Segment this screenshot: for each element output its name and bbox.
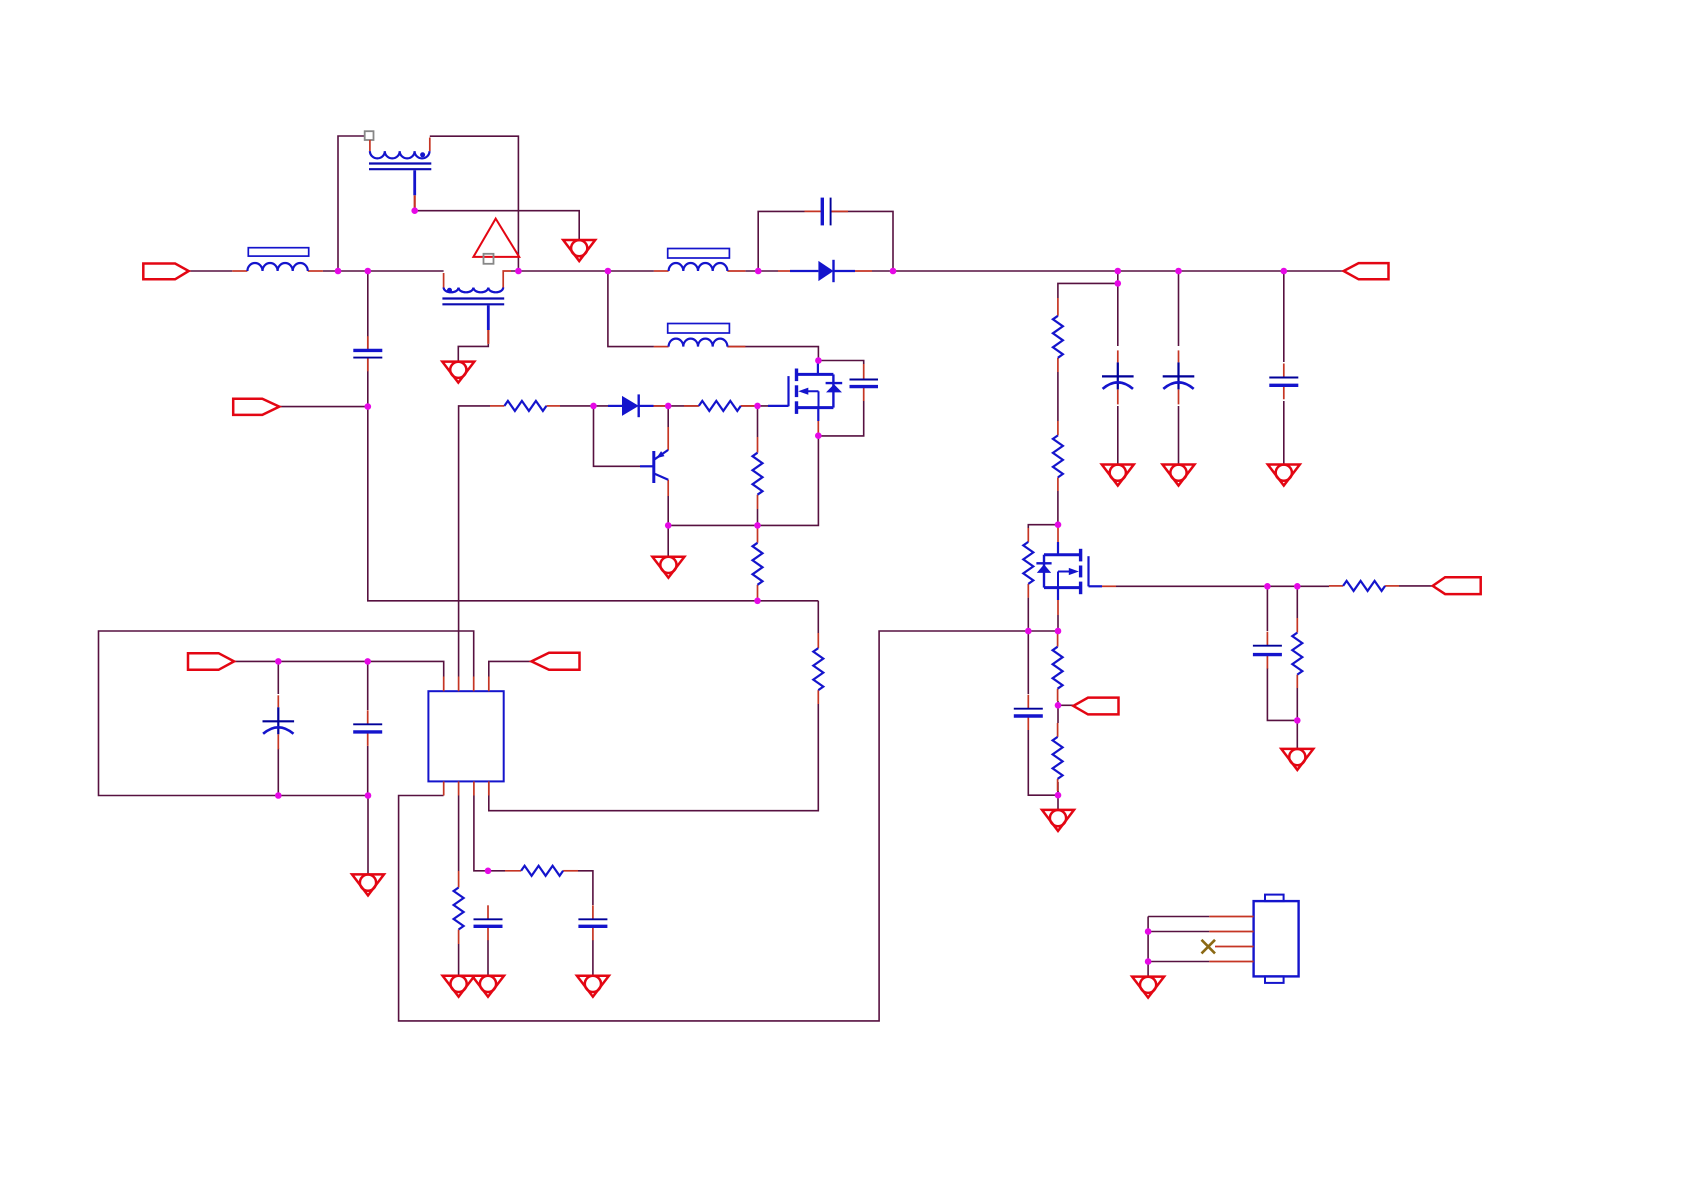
capacitor C1	[353, 336, 382, 371]
junction	[890, 268, 897, 275]
wire	[1296, 688, 1298, 749]
wire	[668, 434, 818, 525]
wire	[1267, 668, 1297, 720]
ground GND6	[1268, 465, 1300, 486]
wire	[818, 361, 863, 365]
wire	[1266, 586, 1268, 631]
wire	[727, 347, 818, 361]
junction	[605, 268, 612, 275]
ground GND4	[1102, 465, 1134, 486]
junction	[754, 598, 761, 605]
resistor R2	[684, 401, 758, 411]
wire	[818, 401, 863, 436]
resistor R12	[1329, 581, 1399, 591]
wire	[1296, 586, 1298, 618]
junction	[1145, 958, 1152, 965]
wire	[1057, 491, 1059, 525]
resistor R8	[1023, 528, 1033, 598]
wire	[99, 631, 474, 796]
wire	[592, 940, 594, 976]
wire	[1058, 271, 1118, 298]
wire	[458, 344, 488, 362]
junction	[335, 268, 342, 275]
resistor R6	[1053, 298, 1063, 372]
wire	[741, 405, 768, 407]
junction	[815, 432, 822, 439]
capacitor C9	[1014, 695, 1043, 730]
capacitor C5 (polarized)	[1163, 350, 1195, 404]
junction	[1025, 628, 1032, 635]
inductor L3	[654, 324, 746, 347]
wire	[459, 406, 490, 677]
junction	[1055, 628, 1062, 635]
junction	[754, 403, 761, 410]
wire	[458, 944, 460, 976]
wire	[667, 406, 669, 427]
transistor Q3 (P-MOSFET with body diode)	[1036, 527, 1116, 616]
wire	[1027, 598, 1029, 631]
junction	[815, 357, 822, 364]
junction	[485, 868, 492, 875]
wire	[1178, 271, 1180, 346]
wire	[1028, 525, 1058, 528]
wire	[1148, 961, 1209, 963]
wire	[1057, 701, 1059, 723]
wire	[487, 940, 489, 976]
wire	[654, 405, 699, 407]
wire	[745, 270, 778, 272]
wire	[594, 406, 641, 466]
ground GND10	[577, 976, 609, 997]
transformer T2	[442, 271, 511, 344]
resistor R4	[753, 528, 763, 598]
port P6	[1433, 577, 1481, 594]
junction	[1145, 928, 1152, 935]
wire	[578, 871, 593, 905]
wire	[367, 271, 369, 350]
wire	[608, 271, 654, 347]
port P2	[233, 399, 279, 415]
transformer T1	[369, 138, 431, 208]
wire	[757, 406, 759, 437]
wire	[338, 136, 365, 271]
test pad square on triangle	[484, 254, 494, 264]
wire	[1283, 401, 1285, 465]
transistor Q2 (PNP)	[640, 427, 668, 496]
resistor R5	[813, 633, 823, 704]
wire	[1399, 585, 1433, 587]
wire	[279, 406, 368, 408]
test pad square on T1 primary	[365, 131, 374, 140]
wire	[489, 661, 532, 676]
wire	[1027, 631, 1029, 694]
junction	[1175, 268, 1182, 275]
wire	[323, 270, 444, 272]
ground GND1	[563, 240, 595, 261]
junction	[590, 403, 597, 410]
capacitor C10	[1253, 632, 1282, 669]
diode D1	[778, 260, 872, 282]
wire	[430, 136, 519, 271]
junction	[365, 792, 372, 799]
junction	[515, 268, 522, 275]
junction	[411, 207, 418, 214]
resistor R1	[490, 401, 560, 411]
protection triangle symbol	[473, 219, 519, 257]
ground GND5	[1163, 465, 1195, 486]
junction	[1294, 583, 1301, 590]
port P4	[531, 653, 579, 670]
ground GND3	[652, 557, 684, 578]
wire	[1148, 931, 1209, 933]
wire	[367, 796, 369, 875]
resistor R3	[753, 437, 763, 509]
inductor L2	[654, 249, 746, 272]
wire	[667, 496, 669, 525]
wire	[367, 746, 369, 796]
capacitor C7	[474, 905, 503, 940]
wire	[488, 870, 505, 872]
wire	[1148, 916, 1209, 918]
wire	[1057, 791, 1059, 810]
resistor R7	[1053, 421, 1063, 491]
wire	[458, 796, 460, 872]
junction	[275, 658, 282, 665]
wire	[1057, 372, 1059, 421]
wire	[1117, 406, 1119, 465]
wire	[1057, 615, 1059, 633]
junction	[755, 268, 762, 275]
capacitor C3 (Q1 snubber)	[850, 364, 879, 401]
wire	[667, 525, 669, 556]
resistor R10	[1053, 723, 1063, 791]
ground GND13	[1132, 977, 1164, 998]
wire	[511, 270, 654, 272]
junction	[1055, 792, 1062, 799]
wire	[1117, 283, 1119, 346]
wire	[474, 796, 488, 871]
wire	[758, 211, 804, 271]
port P7	[1073, 698, 1118, 715]
junction	[275, 792, 282, 799]
resistor R13	[454, 871, 464, 944]
op-amp/controller U1	[428, 677, 503, 796]
wire	[817, 601, 819, 633]
wire	[560, 405, 608, 407]
resistor R11	[1292, 618, 1302, 688]
wire	[1116, 585, 1329, 587]
wire	[831, 211, 893, 271]
wire	[277, 748, 279, 796]
port P3	[188, 653, 234, 670]
port P5	[1344, 263, 1389, 279]
wire	[1028, 730, 1058, 795]
connector J1	[1209, 895, 1298, 983]
wire	[234, 661, 444, 676]
transistor Q1 (N-MOSFET with body diode)	[768, 362, 842, 435]
junction	[1115, 280, 1122, 287]
wire	[1057, 782, 1059, 795]
wire	[757, 509, 759, 528]
ground GND7	[352, 874, 384, 895]
capacitor C8	[578, 905, 607, 940]
junction	[665, 522, 672, 529]
wire	[1178, 406, 1180, 465]
capacitor C6	[1269, 364, 1298, 400]
port P1	[143, 264, 188, 280]
wire	[757, 598, 759, 601]
wire	[367, 661, 369, 710]
junction	[1264, 583, 1271, 590]
junction	[1055, 521, 1062, 528]
junction	[754, 522, 761, 529]
resistor R9	[1053, 633, 1063, 701]
junction	[365, 268, 372, 275]
capacitor C2	[805, 198, 849, 226]
wire	[872, 270, 1344, 272]
ground GND9	[472, 976, 504, 997]
resistor R14	[505, 866, 578, 876]
wire	[399, 631, 1058, 1021]
junction	[1294, 717, 1301, 724]
junction	[365, 403, 372, 410]
wire	[277, 661, 279, 694]
ground GND8	[443, 976, 475, 997]
ground GND12	[1281, 749, 1313, 770]
junction	[364, 658, 371, 665]
wire	[1058, 704, 1073, 706]
capacitor C11 (polarized)	[263, 695, 295, 749]
diode D2	[608, 394, 668, 417]
wire	[368, 357, 819, 601]
capacitor C12	[353, 710, 382, 746]
wire	[189, 270, 233, 272]
capacitor C4 (polarized)	[1102, 350, 1134, 404]
inductor L1	[232, 248, 323, 271]
ground GND2	[442, 362, 474, 383]
ground GND11	[1042, 810, 1074, 831]
wire	[1147, 917, 1149, 977]
junction	[1281, 268, 1288, 275]
wire	[1283, 271, 1285, 362]
wire	[415, 211, 580, 240]
wire	[489, 704, 819, 811]
no-connect X on J1 pin 3	[1202, 940, 1216, 954]
junction	[1115, 268, 1122, 275]
junction	[1055, 702, 1062, 709]
junction	[665, 403, 672, 410]
